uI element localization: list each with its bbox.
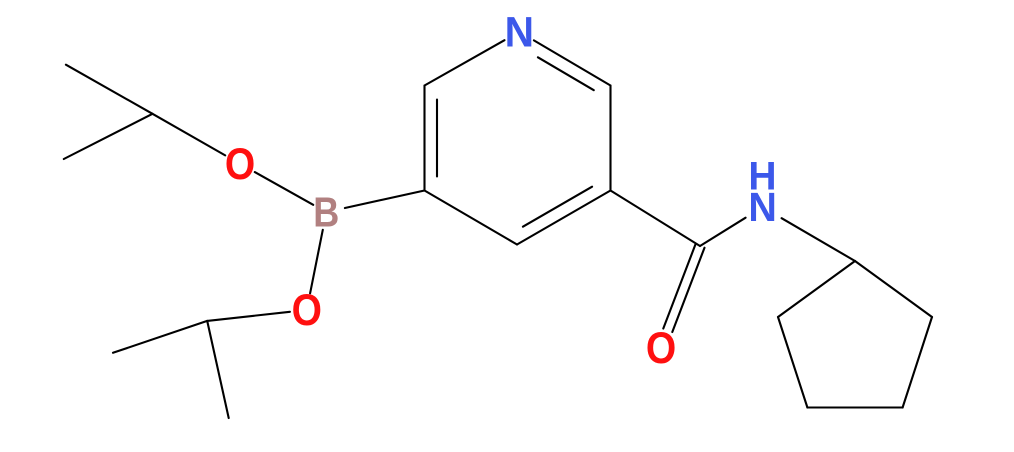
svg-text:O: O (225, 139, 255, 189)
svg-text:H: H (748, 154, 776, 199)
svg-text:N: N (505, 8, 534, 56)
svg-text:B: B (313, 190, 339, 236)
svg-text:O: O (292, 285, 322, 335)
svg-text:O: O (646, 323, 676, 373)
